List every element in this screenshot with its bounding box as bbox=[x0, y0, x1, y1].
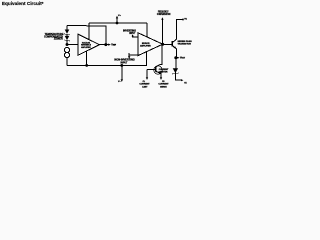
svg-text:NON-INVERTING: NON-INVERTING bbox=[114, 60, 135, 62]
svg-text:AMPLIFIER: AMPLIFIER bbox=[140, 45, 151, 48]
svg-text:CURRENT: CURRENT bbox=[139, 84, 150, 86]
svg-text:ZENER: ZENER bbox=[54, 39, 63, 41]
svg-text:AMPLIFIER: AMPLIFIER bbox=[81, 46, 91, 49]
svg-text:LIMIT: LIMIT bbox=[142, 87, 148, 89]
svg-text:CURRENT: CURRENT bbox=[158, 84, 169, 86]
svg-text:SENSE: SENSE bbox=[160, 87, 167, 89]
svg-text:INPUT: INPUT bbox=[121, 62, 129, 64]
svg-text:Equivalent Circuit*: Equivalent Circuit* bbox=[2, 1, 44, 6]
svg-text:VZ: VZ bbox=[184, 82, 186, 84]
svg-text:VREF: VREF bbox=[111, 45, 116, 47]
svg-text:COMPENSATION: COMPENSATION bbox=[157, 13, 171, 16]
svg-text:LIMITER: LIMITER bbox=[159, 71, 168, 73]
svg-text:TRANSISTOR: TRANSISTOR bbox=[178, 42, 192, 45]
svg-text:VOUT: VOUT bbox=[180, 58, 185, 60]
svg-text:INPUT: INPUT bbox=[129, 33, 136, 35]
